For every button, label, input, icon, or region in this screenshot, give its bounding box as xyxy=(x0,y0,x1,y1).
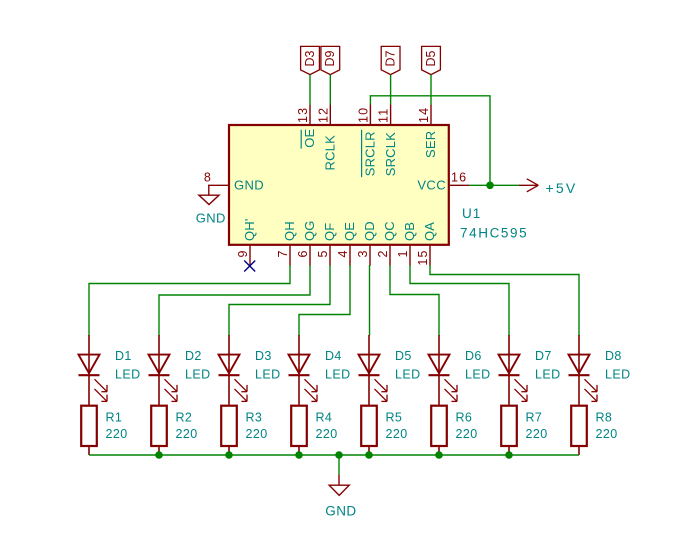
wire from pin to LED D5 xyxy=(369,265,371,336)
LED D5 xyxy=(359,335,421,405)
svg-text:LED: LED xyxy=(255,367,281,381)
svg-text:R5: R5 xyxy=(386,410,403,424)
resistor R3 220 xyxy=(221,406,267,455)
pin 5 QF of U1 xyxy=(316,223,337,266)
svg-text:74HC595: 74HC595 xyxy=(460,226,528,241)
wire from pin to LED D1 xyxy=(89,265,290,336)
svg-text:8: 8 xyxy=(204,171,211,185)
global label D5 xyxy=(422,46,441,74)
svg-text:2: 2 xyxy=(376,249,390,257)
pin 11 SRCLK of U1 xyxy=(377,105,398,177)
svg-text:16: 16 xyxy=(451,171,467,185)
pin 13 OE of U1 xyxy=(296,105,317,149)
svg-text:QC: QC xyxy=(382,221,397,241)
resistor R1 220 xyxy=(81,406,127,455)
svg-text:4: 4 xyxy=(336,249,350,257)
svg-text:220: 220 xyxy=(386,427,408,441)
pin 2 QC of U1 xyxy=(376,221,397,266)
wire VCC pin 16 to +5V xyxy=(469,184,519,186)
pin 12 RCLK of U1 xyxy=(316,105,337,171)
svg-text:R3: R3 xyxy=(246,410,263,424)
svg-text:R4: R4 xyxy=(316,410,333,424)
svg-text:QB: QB xyxy=(402,222,417,241)
junction on ground rail x=299 xyxy=(295,451,303,459)
resistor R7 220 xyxy=(501,406,547,455)
svg-text:220: 220 xyxy=(176,427,198,441)
svg-text:220: 220 xyxy=(316,427,338,441)
junction on ground rail x=339 xyxy=(335,451,343,459)
svg-text:QH: QH xyxy=(282,221,297,241)
svg-text:SRCLR: SRCLR xyxy=(363,131,378,176)
svg-text:LED: LED xyxy=(535,367,561,381)
svg-text:R8: R8 xyxy=(596,410,613,424)
wire from pin to LED D7 xyxy=(410,265,509,336)
svg-text:GND: GND xyxy=(196,210,226,225)
pin 8 GND of U1 xyxy=(204,171,264,193)
resistor R2 220 xyxy=(151,406,197,455)
svg-text:220: 220 xyxy=(526,427,548,441)
wire from pin to LED D4 xyxy=(299,265,350,336)
svg-text:7: 7 xyxy=(276,249,290,257)
junction on ground rail x=439 xyxy=(435,451,443,459)
svg-text:D7: D7 xyxy=(383,50,397,66)
svg-text:R1: R1 xyxy=(106,410,123,424)
LED D7 xyxy=(499,335,561,405)
svg-text:SRCLK: SRCLK xyxy=(383,132,398,176)
svg-text:R7: R7 xyxy=(526,410,543,424)
junction on ground rail x=229 xyxy=(225,451,233,459)
pin 3 QD of U1 xyxy=(356,221,377,266)
svg-text:QA: QA xyxy=(422,222,437,241)
svg-text:QG: QG xyxy=(302,220,317,241)
svg-text:220: 220 xyxy=(246,427,268,441)
pin 6 QG of U1 xyxy=(296,220,317,265)
svg-text:LED: LED xyxy=(465,367,491,381)
svg-text:D6: D6 xyxy=(465,349,482,363)
pin 14 SER of U1 xyxy=(417,105,438,159)
power label +5V xyxy=(519,179,577,196)
svg-text:QF: QF xyxy=(322,223,337,241)
wire from label D3 to pin xyxy=(309,75,311,105)
svg-text:SER: SER xyxy=(423,131,438,158)
svg-text:D7: D7 xyxy=(535,349,552,363)
global label D9 xyxy=(321,46,340,74)
svg-text:11: 11 xyxy=(377,108,391,123)
svg-text:D9: D9 xyxy=(323,50,337,66)
resistor R8 220 xyxy=(571,406,617,455)
svg-text:+5V: +5V xyxy=(546,180,578,196)
pin 16 VCC of U1 xyxy=(417,171,469,193)
svg-text:D3: D3 xyxy=(255,349,272,363)
svg-text:220: 220 xyxy=(106,427,128,441)
svg-text:LED: LED xyxy=(185,367,211,381)
svg-text:R2: R2 xyxy=(176,410,193,424)
global label D7 xyxy=(381,46,400,74)
svg-text:LED: LED xyxy=(395,367,421,381)
LED D2 xyxy=(149,335,211,405)
wire from pin to LED D3 xyxy=(229,265,330,336)
svg-text:QH': QH' xyxy=(242,218,257,241)
svg-text:D4: D4 xyxy=(325,349,342,363)
LED D8 xyxy=(569,335,631,405)
no-connect flag on pin 9 xyxy=(244,261,255,272)
svg-text:1: 1 xyxy=(396,249,410,257)
svg-text:D8: D8 xyxy=(605,349,622,363)
svg-text:15: 15 xyxy=(416,249,430,265)
LED D3 xyxy=(219,335,281,405)
LED D4 xyxy=(289,335,351,405)
global label D3 xyxy=(301,46,320,74)
IC U1 74HC595 body xyxy=(229,125,449,245)
svg-text:9: 9 xyxy=(236,249,250,257)
wire from label D9 to pin xyxy=(329,75,331,105)
junction on ground rail x=159 xyxy=(155,451,163,459)
wire SRCLR pin 10 up to +5V rail xyxy=(370,96,490,186)
svg-text:GND: GND xyxy=(325,504,356,519)
ground symbol at pin 8 xyxy=(196,185,226,225)
svg-text:220: 220 xyxy=(456,427,478,441)
pin 7 QH of U1 xyxy=(276,221,297,266)
svg-text:OE: OE xyxy=(302,128,317,147)
svg-text:LED: LED xyxy=(325,367,351,381)
wire from label D7 to pin xyxy=(390,75,392,105)
svg-text:220: 220 xyxy=(596,427,618,441)
pin 9 QH&#39; of U1 xyxy=(236,218,257,265)
junction at VCC node xyxy=(486,182,494,190)
svg-text:13: 13 xyxy=(296,107,310,123)
svg-text:6: 6 xyxy=(296,249,310,257)
wire from pin to LED D2 xyxy=(159,265,310,336)
svg-text:RCLK: RCLK xyxy=(323,135,338,171)
LED D6 xyxy=(429,335,491,405)
svg-text:D5: D5 xyxy=(424,50,438,66)
svg-text:R6: R6 xyxy=(456,410,473,424)
svg-text:GND: GND xyxy=(234,177,264,192)
wire from pin to LED D6 xyxy=(390,265,439,336)
svg-text:14: 14 xyxy=(417,107,431,123)
resistor R4 220 xyxy=(291,406,337,455)
pin 10 SRCLR of U1 xyxy=(356,105,377,178)
resistor R5 220 xyxy=(361,406,407,455)
LED D1 xyxy=(79,335,141,405)
junction on ground rail x=509 xyxy=(505,451,513,459)
svg-text:D1: D1 xyxy=(115,349,132,363)
svg-text:QE: QE xyxy=(342,222,357,241)
wire from pin to LED D8 xyxy=(430,265,579,336)
svg-text:VCC: VCC xyxy=(417,177,446,192)
pin 15 QA of U1 xyxy=(416,222,437,266)
value 74HC595 xyxy=(460,226,528,241)
svg-text:U1: U1 xyxy=(462,206,481,221)
pin 4 QE of U1 xyxy=(336,222,357,266)
svg-text:D3: D3 xyxy=(303,50,317,66)
svg-text:D2: D2 xyxy=(185,349,202,363)
svg-text:12: 12 xyxy=(316,107,330,123)
ground symbol at rail xyxy=(325,475,356,519)
wire from label D5 to pin xyxy=(430,75,432,105)
svg-text:LED: LED xyxy=(605,367,631,381)
svg-text:D5: D5 xyxy=(395,349,412,363)
wire to ground symbol xyxy=(338,455,340,475)
svg-text:LED: LED xyxy=(115,367,141,381)
wire ground rail xyxy=(89,454,579,456)
svg-text:QD: QD xyxy=(362,221,377,241)
svg-text:3: 3 xyxy=(356,249,370,257)
reference U1 xyxy=(462,206,481,221)
svg-text:5: 5 xyxy=(316,249,330,257)
pin 1 QB of U1 xyxy=(396,222,417,266)
resistor R6 220 xyxy=(431,406,477,455)
junction on ground rail x=369 xyxy=(365,451,373,459)
svg-text:10: 10 xyxy=(356,107,370,123)
